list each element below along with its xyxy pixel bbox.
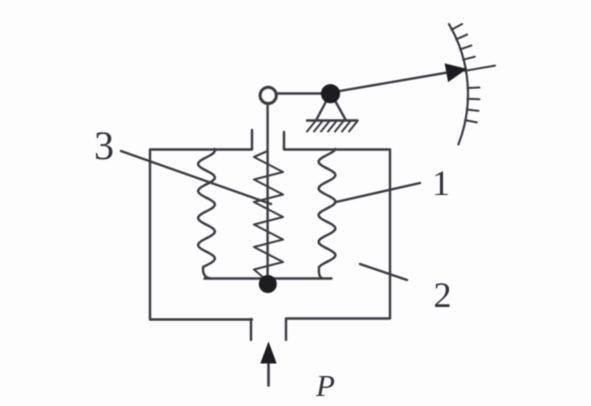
svg-text:2: 2 xyxy=(434,275,452,315)
svg-text:P: P xyxy=(315,368,335,403)
svg-text:3: 3 xyxy=(94,123,114,168)
svg-text:1: 1 xyxy=(432,163,450,203)
